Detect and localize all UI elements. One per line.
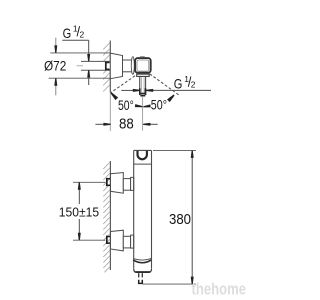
bottom supply fitting (dark, behind wall) bbox=[106, 236, 110, 244]
svg-text:380: 380 bbox=[169, 211, 191, 228]
wall line (bottom view) bbox=[109, 161, 111, 270]
angle arrow at right dashed end bbox=[167, 95, 175, 103]
dim O72 extension lines bbox=[50, 52, 110, 54]
column bottom shading arcs bbox=[133, 259, 151, 261]
top union spacer bbox=[131, 177, 134, 190]
wall hatching (top view) bbox=[103, 43, 110, 92]
swivel dashed line right bbox=[150, 74, 179, 95]
svg-text:2: 2 bbox=[80, 29, 85, 39]
top supply fitting (dark, behind wall) bbox=[106, 178, 110, 186]
G1/2 leader line right (to outlet right edge) bbox=[152, 89, 211, 91]
outlet pipe bbox=[139, 77, 141, 95]
column cap separation bbox=[134, 163, 152, 165]
svg-text:Ø72: Ø72 bbox=[44, 59, 66, 75]
dim 380 extension lines bbox=[153, 149, 196, 151]
svg-text:1: 1 bbox=[184, 74, 189, 84]
top union nut bbox=[123, 179, 130, 191]
column bottom rounded cap bbox=[134, 269, 152, 273]
outlet collar bbox=[137, 74, 150, 76]
svg-text:88: 88 bbox=[119, 115, 134, 132]
handle (cushion, side view) bbox=[135, 58, 151, 73]
svg-text:2: 2 bbox=[191, 80, 196, 90]
angle dim line left (to outlet left edge) bbox=[121, 89, 134, 91]
neck bbox=[123, 59, 132, 61]
angle arrow at left dashed end bbox=[111, 92, 119, 100]
wall extension line down to 88 dim bbox=[109, 93, 111, 132]
supply pipe behind wall (top view) bbox=[81, 62, 110, 70]
svg-text:1: 1 bbox=[73, 24, 78, 34]
50 deg left leader arrow to centerline bbox=[135, 104, 143, 107]
50 deg right leader arrow to centerline bbox=[143, 104, 151, 107]
thermostat column bbox=[133, 150, 135, 268]
label G 1/2 (top-left) bbox=[63, 24, 85, 42]
pipe centerline tick bbox=[77, 65, 84, 67]
svg-text:thehome: thehome bbox=[192, 279, 247, 298]
label 150+-15 bbox=[59, 205, 99, 220]
outlet nipple bbox=[138, 273, 140, 277]
bottom union nut bbox=[123, 236, 130, 248]
top union cone bbox=[111, 173, 124, 194]
escutcheon flange (cone) bbox=[110, 53, 122, 79]
bottom union cone bbox=[111, 230, 124, 251]
outlet thread (dark) bbox=[139, 88, 141, 95]
handle inner contour bbox=[137, 60, 149, 71]
ring at handle base bbox=[131, 57, 134, 75]
bottom union spacer bbox=[131, 235, 134, 248]
svg-text:50°: 50° bbox=[151, 98, 167, 113]
pipe wall fitting (dark) bbox=[105, 62, 110, 71]
handle cushion bumps bbox=[140, 55, 145, 58]
shower hose bracket U bbox=[138, 151, 147, 159]
swivel dashed line left bbox=[111, 76, 135, 93]
label 380 bbox=[168, 211, 191, 228]
dim O72 arrows bbox=[55, 38, 57, 46]
dim 150+-15 dimension line and arrows bbox=[78, 189, 80, 204]
wall hatching (bottom view) bbox=[103, 162, 110, 272]
svg-text:50°: 50° bbox=[118, 98, 134, 113]
label G 1/2 (right) bbox=[174, 74, 196, 92]
dim G 1/2 (wall pipe) leader bbox=[62, 39, 88, 41]
wall line (top view) bbox=[109, 41, 111, 93]
svg-text:150±15: 150±15 bbox=[59, 205, 99, 220]
dim 88 bbox=[95, 123, 104, 125]
svg-text:G: G bbox=[174, 77, 183, 92]
svg-text:G: G bbox=[63, 26, 72, 41]
dim 150+-15 extension lines bbox=[73, 181, 105, 183]
outlet centerline bbox=[142, 97, 144, 131]
dim 380 dimension line and arrows bbox=[191, 151, 193, 284]
